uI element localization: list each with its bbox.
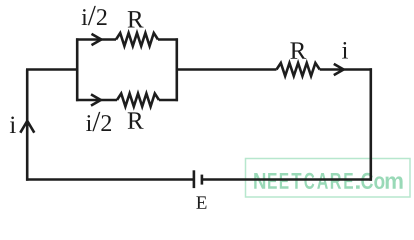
wire: bottom branch right lead [159,99,178,102]
resistor R (series, right) [277,63,320,76]
wire: bottom right horizontal to battery [202,178,372,181]
arrowhead: current i right side [334,64,344,75]
label E (battery) [196,196,206,208]
battery E short plate [201,175,204,185]
label i (left current) [10,116,16,133]
label R (bottom branch) [128,112,144,128]
wire: top branch right lead [158,38,178,41]
wire: right vertical [369,68,372,180]
wire: middle horizontal to series resistor [177,68,277,71]
wire: parallel box right vertical [176,38,179,101]
label i/2 (bottom branch) [86,112,111,131]
arrowhead: current i/2 bottom branch [91,94,101,105]
wire: top-left horizontal into parallel junction [26,68,77,71]
label R (top branch) [128,11,144,27]
watermark NEETCARE.Com [246,159,411,198]
label R (series resistor) [290,42,306,58]
wire: top branch left lead [76,38,116,41]
arrowhead: current i/2 top branch [92,34,102,45]
wire: left vertical [26,70,29,181]
resistor R (bottom branch) [117,94,159,107]
label i/2 (top branch) [82,6,107,25]
wire: bottom left horizontal from battery [26,178,194,181]
label i (right current) [342,42,348,59]
wire: parallel box left vertical [76,38,79,101]
battery E long plate [193,170,196,188]
wire: right horizontal lead to corner [320,68,372,71]
arrowhead: current i left side (up) [20,121,34,133]
wire: bottom branch left lead [76,99,117,102]
resistor R (top branch) [116,33,158,46]
